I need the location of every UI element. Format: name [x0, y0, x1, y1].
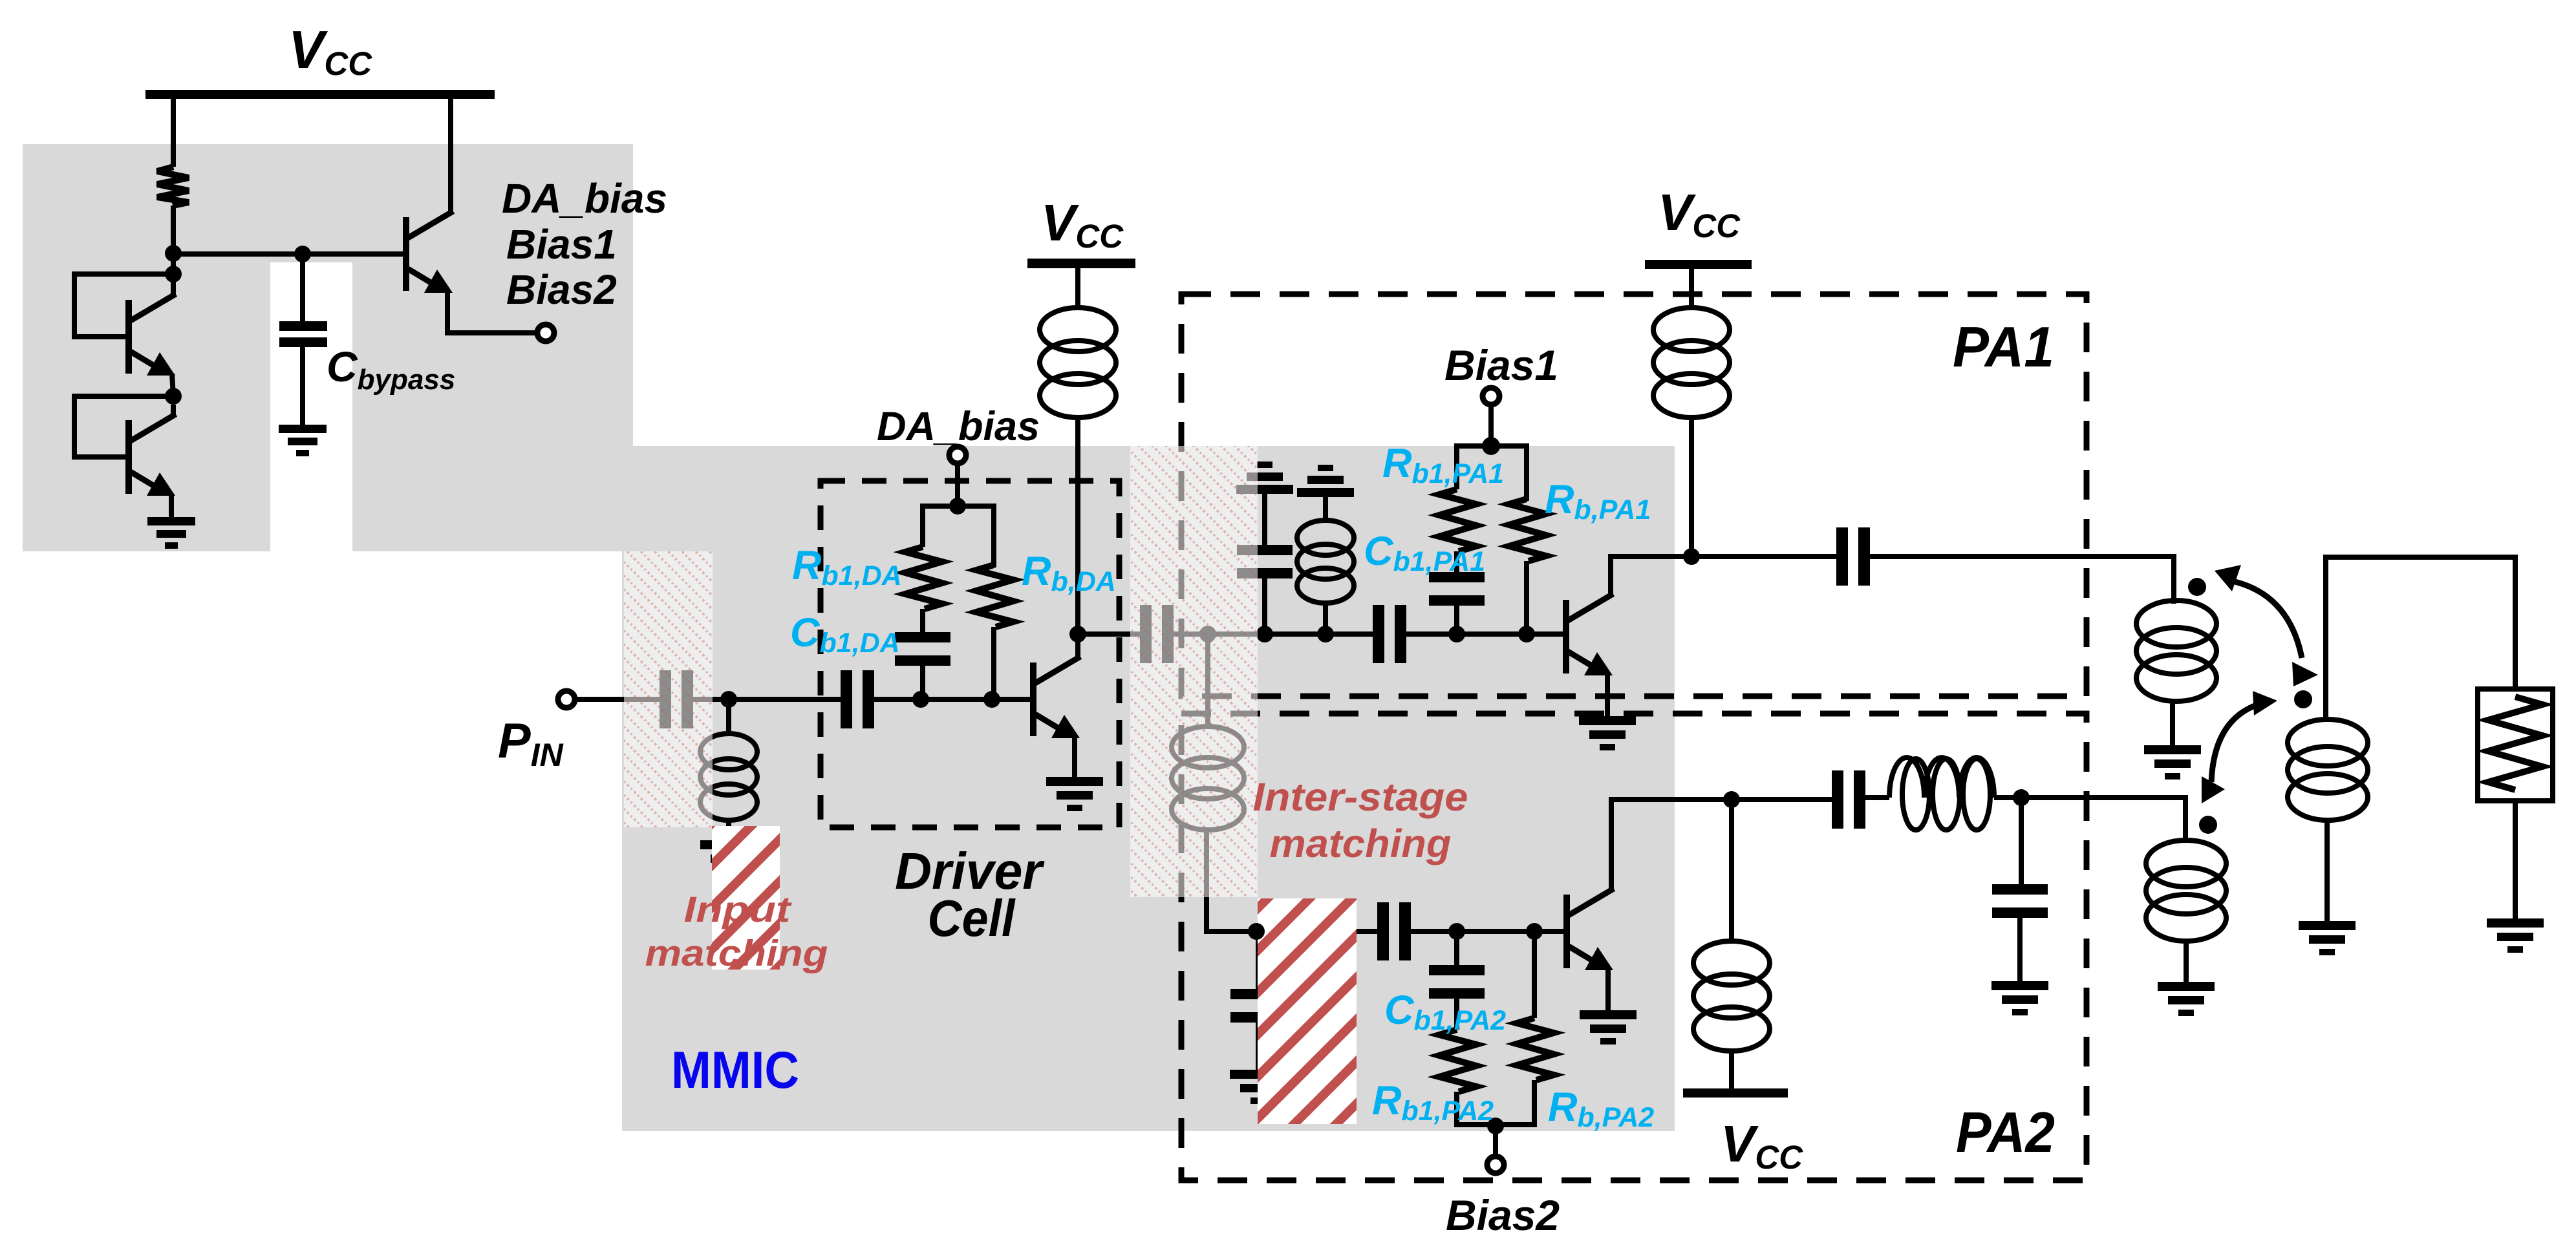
transistor Q6 (PA2) [1563, 890, 1613, 970]
node G (RbDA tap) [983, 691, 1000, 708]
resistor Rb1,DA [905, 547, 942, 609]
wire Q2 collector [171, 405, 176, 416]
ground (input matching, hidden by hatch) [700, 840, 757, 875]
node P (PA1 collector) [1683, 548, 1700, 565]
node Q (PA2 base junction) [1250, 923, 1267, 940]
node V (PA2 matching junction) [2013, 789, 2030, 806]
wire Q5 collector up and right [1611, 557, 1691, 595]
ground (under load) [2487, 918, 2544, 953]
wire load box to ground [2513, 801, 2518, 918]
wire node V to lower primary [2021, 798, 2185, 840]
hatch overlay: inter-stage matching (dark) [1258, 898, 1357, 1124]
wire secondary top rail [2326, 557, 2515, 719]
wire node Q to PA2 series cap [1258, 929, 1377, 934]
dashed box PA2 [1181, 714, 2087, 1180]
wire RbPA1 to node N [1524, 561, 1529, 634]
transistor Q3 (bias follower) [403, 213, 453, 293]
capacitor (PA2 output shunt) [1992, 884, 2048, 918]
wire Q3 emitter to bias output terminal [447, 293, 538, 333]
capacitor (PA2 series coupling) [1377, 902, 1411, 960]
wire PA1 output to combiner [1870, 557, 2174, 604]
capacitor Cb1,PA2 [1429, 965, 1485, 999]
node K (shunt cap branch) [1256, 626, 1273, 642]
ground (PA2 emitter) [1580, 1010, 1637, 1045]
svg-text:PA1: PA1 [1953, 315, 2054, 379]
inductor (inter-stage series to PA2) [1172, 727, 1244, 830]
wire Q4 emitter to ground [1072, 737, 1077, 777]
wire cap to Q5 base [1406, 631, 1563, 637]
node E (input matching tap) [720, 691, 737, 708]
wire shunt inductor to ground [726, 820, 731, 840]
ground (flipped, above cap) [1236, 461, 1293, 494]
resistor Rb,DA [976, 565, 1013, 627]
wire node K up to cap [1262, 577, 1267, 634]
ground (flipped, above inductor) [1297, 465, 1354, 497]
ground (under primary 2) [2158, 982, 2215, 1016]
load resistor box [2478, 689, 2553, 801]
inductor (combiner primary 2, from PA2) [2146, 840, 2226, 941]
wire Bias1 terminal down [1488, 405, 1494, 446]
wire PIN to input cap [575, 697, 660, 702]
wire node A to Q3 base [173, 251, 403, 257]
transistor Q5 (PA1) [1563, 595, 1613, 675]
capacitor Cbypass [279, 321, 327, 331]
svg-text:MMIC: MMIC [671, 1041, 799, 1099]
wire node L up to inductor [1323, 601, 1328, 634]
ground (under Q2) [147, 517, 195, 549]
gray panel: MMIC block [622, 446, 1675, 1131]
node dot (primary 2 polarity) [2199, 816, 2217, 834]
inductor (combiner primary 1, from PA1) [2136, 600, 2216, 701]
terminal DA_bias [949, 447, 966, 463]
svg-text:matching: matching [1270, 822, 1452, 865]
node dot (secondary polarity) [2294, 690, 2312, 708]
wire VCC to bias resistor [171, 96, 176, 167]
ground (under primary 1) [2144, 745, 2201, 780]
svg-text:Input: Input [684, 889, 793, 929]
capacitor (PA1 output coupling) [1836, 527, 1870, 586]
node H (bias rail) [949, 498, 966, 514]
capacitor (driver output coupling) [1140, 605, 1174, 663]
node A [165, 245, 182, 262]
wire hidden cap to ground [1256, 1021, 1261, 1070]
wire node C to Cbypass [300, 254, 305, 321]
hatch overlay: input matching (light) [624, 551, 713, 827]
wire node R down to Cb1PA2 [1454, 931, 1459, 965]
wire shunt cap to ground [2017, 917, 2023, 981]
terminal Bias2 [1487, 1156, 1504, 1173]
capacitor Cb1,PA1 [1429, 572, 1485, 606]
wire node V down to shunt cap [2019, 798, 2024, 884]
wire Cb1PA1 to node M [1454, 604, 1459, 634]
svg-text:Bias1: Bias1 [506, 221, 617, 268]
ground (under PA2 shunt cap) [1991, 981, 2048, 1015]
wire node U down to PA2 choke [1729, 800, 1734, 942]
wire VCC bar to choke [1075, 268, 1080, 309]
capacitor Cb1,DA [895, 632, 950, 666]
capacitor (inter-stage shunt to ground) [1237, 545, 1293, 578]
terminal DA_bias/Bias1/Bias2 output [537, 324, 554, 341]
wire Q2 base feedback [74, 396, 173, 457]
wire inductor to node V [1994, 795, 2021, 800]
node T (Bias2) [1487, 1118, 1504, 1134]
transistor Q1 (diode-connected) [125, 295, 175, 376]
inductor (combiner secondary) [2288, 719, 2368, 820]
capacitor (input coupling) [660, 670, 693, 728]
wire Rb1PA2 to Bias2 node [1457, 1092, 1496, 1125]
wire Cbypass to ground [300, 347, 305, 425]
inductor (driver collector choke) [1040, 308, 1116, 418]
wire Q1 base feedback [74, 274, 173, 337]
svg-text:Cell: Cell [928, 889, 1016, 947]
terminal PIN [558, 691, 575, 708]
dashed box PA1 [1181, 294, 2087, 696]
svg-text:matching: matching [645, 933, 828, 974]
wire node E to shunt inductor [726, 699, 731, 734]
wire Q2 emitter to ground [169, 494, 174, 517]
ground (PA1 emitter) [1579, 716, 1636, 750]
wire choke to VCC bar [1729, 1050, 1734, 1088]
inductor (inter-stage shunt to ground) [1297, 520, 1354, 603]
node F (Cb1DA tap) [912, 691, 929, 708]
dashed box Driver Cell [821, 481, 1119, 827]
wire Q1 emitter to node D [172, 374, 173, 396]
capacitor (PA1 series coupling) [1373, 605, 1406, 663]
coupling arrow (PA1 to secondary) [2229, 580, 2302, 658]
wire input cap to driver cap [693, 697, 841, 702]
transistor Q2 (diode-connected) [125, 416, 175, 496]
node O (Bias1 rail) [1482, 437, 1500, 455]
node Q redrawn above hatch [1248, 923, 1265, 940]
gray panel: bias block [23, 144, 633, 551]
resistor Rb1,PA2 [1439, 1030, 1476, 1092]
VCC bar (driver) [1027, 259, 1135, 268]
wire cap to flipped ground [1262, 494, 1267, 545]
node M (Cb1PA1 tap) [1448, 626, 1465, 642]
wire node S down to RbPA2 [1532, 931, 1537, 1018]
resistor (load) inside box [2488, 697, 2542, 790]
node R (Cb1PA2 tap) [1448, 923, 1465, 940]
wire node U to PA2 output cap [1732, 797, 1832, 802]
wire collector to output cap [1078, 631, 1140, 637]
terminal Bias1 [1483, 388, 1499, 405]
transistor Q4 (driver) [1030, 658, 1080, 738]
wire choke to Q4 collector [1075, 416, 1080, 659]
wire Cb1PA2 to Rb1PA2 [1454, 997, 1459, 1030]
VCC bar (PA2, below) [1683, 1088, 1788, 1098]
coupling arrow (secondary to PA2) [2211, 704, 2260, 782]
svg-text:Inter-stage: Inter-stage [1253, 775, 1468, 819]
wire primary 2 to ground [2184, 941, 2189, 982]
node D [165, 388, 182, 405]
VCC bar (PA1) [1645, 260, 1752, 269]
wire cap to Q6 base [1411, 929, 1563, 934]
wire secondary to ground [2324, 820, 2330, 921]
wire node J down to PA2 branch inductor [1205, 634, 1210, 728]
wire Rb1PA1 to Cb1PA1 [1454, 551, 1459, 572]
wire Rb1DA to Cb1DA [920, 609, 925, 633]
resistor (bias reference) [157, 167, 189, 206]
node J (inter-stage junction) [1199, 626, 1216, 642]
wire Q6 collector up and right [1611, 800, 1732, 890]
capacitor (PA2 output coupling) [1832, 770, 1865, 829]
inductor (PA2 collector choke) [1693, 941, 1770, 1051]
wire resistor to node A [171, 206, 176, 274]
svg-text:Bias1: Bias1 [1444, 341, 1558, 389]
wire inductor to PA2 base rail [1207, 829, 1258, 931]
wire node P to PA1 output cap [1691, 554, 1836, 559]
wire bias rail [923, 506, 994, 567]
inductor (PA1 collector choke) [1653, 308, 1730, 418]
node S (RbPA2 tap) [1526, 923, 1543, 940]
wire PA1 base rail left [1208, 631, 1373, 637]
resistor Rb,PA2 [1517, 1018, 1554, 1080]
capacitor (PA2 shunt to ground, hidden by hatch) [1230, 989, 1286, 1023]
wire primary 1 to ground [2170, 701, 2175, 745]
wire choke to node P [1689, 416, 1694, 557]
VCC bar (top-left) [145, 90, 495, 99]
wire Q5 emitter to ground [1605, 674, 1610, 716]
svg-text:PA2: PA2 [1956, 1100, 2055, 1164]
wire DA_bias terminal down [955, 463, 960, 506]
ground (under Cbypass) [279, 425, 327, 456]
wire node Q down to hidden shunt cap [1256, 931, 1261, 989]
node N (RbPA1 tap) [1518, 626, 1535, 642]
hatch overlay: inter-stage matching (light) [1130, 446, 1258, 897]
node B (diode stack top) [165, 266, 182, 282]
resistor Rb,PA1 [1509, 499, 1546, 561]
wire driver cap to Q4 base [874, 697, 1030, 702]
node C (Cbypass tap) [294, 246, 311, 262]
ground (hidden by hatch) [1230, 1070, 1287, 1104]
wire VCC bar to PA1 choke [1689, 268, 1694, 309]
inductor (PA2 output series) [1889, 758, 1994, 830]
svg-text:Bias2: Bias2 [506, 266, 617, 313]
wire Bias2 node to terminal [1493, 1126, 1498, 1156]
ground (under secondary) [2299, 921, 2356, 955]
node U (PA2 collector) [1723, 791, 1740, 808]
wire inductor to flipped ground [1323, 497, 1328, 520]
wire Q6 emitter to ground [1605, 969, 1611, 1010]
wire Q1 collector [171, 274, 176, 295]
wire cap to series inductor [1865, 795, 1889, 800]
wire RbDA to node G [991, 627, 996, 699]
hatch overlay: input matching (dark) [712, 826, 780, 970]
svg-text:DA_bias: DA_bias [877, 404, 1040, 449]
capacitor (driver input coupling) [841, 670, 874, 728]
wire Cb1DA to node F [920, 664, 925, 699]
resistor Rb1,PA1 [1439, 489, 1476, 551]
node L (shunt inductor branch) [1317, 626, 1334, 642]
wire Q3 collector to VCC bar [448, 96, 453, 213]
svg-text:Bias2: Bias2 [1446, 1191, 1560, 1239]
wire RbPA2 to Bias2 node [1496, 1080, 1534, 1125]
node I (driver collector) [1069, 626, 1086, 642]
node dot (primary 1 polarity) [2188, 578, 2206, 596]
wire Bias1 rail [1457, 446, 1527, 501]
svg-text:DA_bias: DA_bias [502, 175, 667, 222]
ground (driver emitter) [1046, 777, 1103, 811]
wire output cap to interstage node [1174, 631, 1208, 637]
white notch in bias panel [270, 262, 352, 551]
inductor (input shunt) [700, 734, 757, 820]
